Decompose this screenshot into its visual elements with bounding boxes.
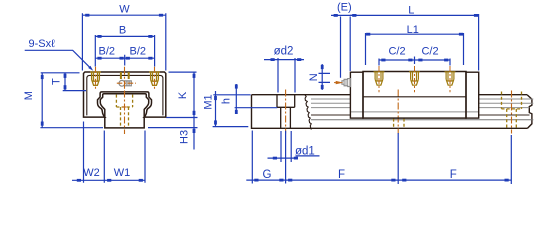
svg-text:T: T — [51, 78, 63, 85]
tapped hole 2 centerline — [414, 66, 416, 92]
hidden hole centerline — [511, 91, 513, 134]
svg-text:9-Sxℓ: 9-Sxℓ — [29, 38, 56, 50]
rail side outline — [252, 95, 532, 129]
dim h — [235, 84, 278, 114]
svg-text:ød2: ød2 — [274, 45, 294, 57]
left tapped hole centerline — [95, 67, 97, 89]
hidden bolt hole middle (dashed) — [394, 119, 404, 128]
rail cross-section — [100, 94, 148, 128]
svg-text:W1: W1 — [114, 167, 131, 179]
tapped hole 1 (side view) — [374, 72, 385, 85]
rail bolt hole centerline — [124, 91, 126, 135]
svg-text:(E): (E) — [337, 2, 352, 14]
block body side outline — [363, 72, 466, 119]
rail lower groove line — [311, 119, 533, 121]
svg-text:F: F — [450, 169, 457, 181]
grease nipple (side view) — [342, 79, 351, 87]
block outer outline — [84, 72, 166, 117]
dim W — [82, 13, 165, 70]
dim N — [319, 64, 331, 90]
svg-text:h: h — [221, 98, 233, 104]
section hole centerline — [285, 90, 287, 134]
svg-text:L1: L1 — [407, 24, 419, 36]
svg-text:B/2: B/2 — [99, 46, 116, 58]
svg-text:C/2: C/2 — [421, 46, 438, 58]
hidden bolt hole right (dashed) — [502, 92, 522, 129]
svg-text:C/2: C/2 — [388, 46, 405, 58]
dim K and H3 — [148, 72, 198, 149]
tapped hole 2 (side view) — [409, 72, 420, 85]
rail break line — [305, 95, 312, 130]
tapped hole 3 (side view) — [445, 72, 456, 85]
dim M1 — [213, 91, 251, 127]
svg-text:B: B — [119, 25, 126, 37]
svg-text:H3: H3 — [179, 130, 191, 144]
grease nipple leader arrow (orange) — [334, 82, 339, 84]
svg-text:N: N — [308, 73, 320, 81]
dim G — [246, 131, 285, 184]
dim od2 — [264, 58, 304, 93]
tapped hole 3 centerline — [449, 66, 451, 92]
middle hole centerline — [397, 90, 399, 134]
right tapped hole centerline — [154, 67, 156, 89]
tapped hole 1 centerline — [378, 66, 380, 92]
dim T — [63, 73, 86, 91]
svg-text:M: M — [23, 91, 35, 100]
right end cap — [466, 72, 479, 118]
svg-text:K: K — [177, 91, 189, 99]
dim (E) — [331, 15, 357, 77]
rail hidden bolt hole (counterbore, dashed) — [116, 95, 132, 128]
block inner chamfer line — [87, 75, 163, 115]
dim C/2 C/2 — [379, 57, 450, 66]
grease nipple (front view) — [119, 80, 131, 86]
rail section counterbore hole — [277, 95, 295, 129]
rail shoulder line (dark) — [311, 114, 530, 116]
dim F (first) — [286, 133, 399, 184]
svg-text:M1: M1 — [203, 94, 215, 109]
hole centerline cross tick — [122, 106, 126, 108]
left end cap — [350, 72, 363, 118]
right tapped hole S x l — [149, 72, 160, 85]
rail groove lines (gray) — [311, 99, 533, 112]
svg-text:B/2: B/2 — [130, 46, 147, 58]
dim B/2 B/2 — [95, 55, 154, 66]
dim B — [95, 35, 154, 67]
svg-text:W: W — [119, 4, 130, 16]
dim M — [40, 73, 103, 128]
svg-text:W2: W2 — [83, 167, 100, 179]
dim L — [350, 14, 478, 71]
left tapped hole S x l — [90, 72, 101, 85]
svg-text:L: L — [408, 5, 414, 17]
svg-text:F: F — [338, 169, 345, 181]
grease nipple centerlines — [117, 82, 136, 84]
dim F (second) — [398, 135, 511, 184]
svg-text:G: G — [263, 169, 272, 181]
grease nipple mount threads (front view) — [121, 72, 129, 79]
dim W2 / W1 — [72, 122, 145, 183]
dim L1 — [366, 33, 464, 65]
block rail-interface line — [363, 96, 466, 98]
dim od1 — [268, 131, 296, 162]
